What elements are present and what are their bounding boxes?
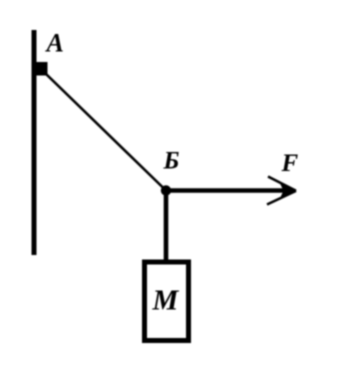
- svg-text:Б: Б: [163, 148, 180, 175]
- node A (attachment square): [37, 62, 48, 76]
- mass M box: [145, 262, 189, 341]
- wire force line F: [166, 188, 288, 193]
- wall: [32, 30, 37, 255]
- svg-text:M: M: [152, 285, 180, 317]
- wire cord B-M: [164, 191, 169, 263]
- svg-text:A: A: [45, 29, 64, 58]
- node B junction dot: [161, 185, 171, 195]
- wire rope A-B: [45, 73, 166, 191]
- arrowhead F: [280, 184, 296, 199]
- svg-text:F: F: [281, 150, 299, 177]
